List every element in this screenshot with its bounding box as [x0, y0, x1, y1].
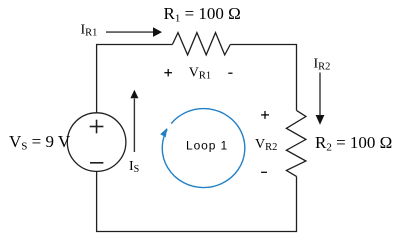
svg-text:Loop 1: Loop 1	[186, 139, 228, 153]
svg-text:VS = 9 V: VS = 9 V	[9, 132, 71, 153]
